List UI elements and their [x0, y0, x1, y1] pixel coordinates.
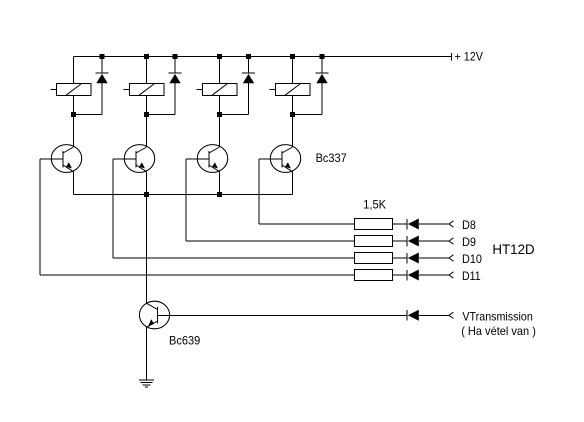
wire emitter bus to Q5 collector	[146, 195, 148, 304]
transistor Q1 Bc337	[51, 145, 81, 173]
wire resistor R3 to diode	[393, 257, 408, 259]
wire junction to diode D1 anode	[74, 83, 103, 115]
wire diode D2 cathode to rail	[174, 57, 176, 74]
wire base line to resistor R2	[186, 240, 355, 242]
label node VTransmission	[462, 309, 532, 323]
label 1,5K	[363, 198, 386, 212]
diode input D11	[407, 270, 419, 281]
transistor Q2 Bc337	[124, 145, 154, 173]
port arrow VTransmission	[449, 312, 453, 318]
junction emitter bus at Q2 / Q5 collector	[144, 192, 149, 197]
wire Q4 base lead	[259, 158, 282, 160]
wire rail to relay K2 coil	[146, 57, 148, 84]
junction relay K2 / diode D2 node	[144, 112, 149, 117]
label node D11	[462, 269, 481, 283]
wire Q3 emitter to bus	[219, 172, 221, 195]
wire relay K2 bottom lead	[146, 96, 148, 115]
svg-text:D10: D10	[462, 252, 482, 266]
diode input D8	[407, 219, 419, 230]
label ( Ha vétel van )	[461, 324, 536, 338]
diode input D9	[407, 236, 419, 247]
svg-text:Bc337: Bc337	[316, 151, 347, 165]
label node D8	[462, 218, 476, 232]
label +12V	[455, 50, 484, 64]
wire Q1 base lead	[40, 158, 63, 160]
label Bc337	[316, 151, 347, 165]
wire diode to port D11	[419, 274, 449, 276]
resistor R1 1,5K	[355, 219, 393, 230]
wire rail to relay K1 coil	[73, 57, 75, 84]
svg-text:Bc639: Bc639	[169, 334, 200, 348]
svg-text:VTransmission: VTransmission	[462, 309, 532, 323]
junction relay K3 / diode D3 node	[217, 112, 222, 117]
wire relay K3 bottom lead	[219, 96, 221, 115]
label Bc639	[169, 334, 200, 348]
wire diode to port D8	[419, 223, 449, 225]
port arrow D8	[449, 221, 453, 227]
wire Q4 emitter to bus	[292, 172, 294, 195]
wire resistor R1 to diode	[393, 223, 408, 225]
wire Q4 base drop	[258, 159, 260, 224]
wire diode to port D9	[419, 240, 449, 242]
junction on +12V rail at D4 column	[320, 54, 325, 59]
wire Q2 emitter to bus	[146, 172, 148, 195]
wire resistor R4 to diode	[393, 274, 408, 276]
relay K1 coil	[51, 84, 92, 96]
transistor Q3 Bc337	[197, 145, 227, 173]
diode input D10	[407, 253, 419, 264]
svg-text:D8: D8	[462, 218, 476, 232]
label HT12D	[492, 241, 534, 257]
junction on +12V rail at K3 column	[217, 54, 222, 59]
wire +12V power rail	[74, 56, 452, 58]
wire base line to resistor R3	[113, 257, 355, 259]
wire junction to diode D4 anode	[293, 83, 323, 115]
resistor R2 1,5K	[355, 236, 393, 247]
node +12V terminal tick	[451, 53, 453, 61]
wire relay K4 bottom lead	[292, 96, 294, 115]
wire Q5 emitter to ground	[146, 328, 148, 381]
wire relay K1 bottom lead	[73, 96, 75, 115]
junction emitter bus at Q3	[217, 192, 222, 197]
wire rail to relay K4 coil	[292, 57, 294, 84]
wire diode to port VTransmission	[419, 314, 449, 316]
wire resistor R2 to diode	[393, 240, 408, 242]
port arrow D11	[449, 272, 453, 278]
wire Q2 base lead	[113, 158, 136, 160]
wire base line to resistor R4	[40, 274, 355, 276]
transistor Q5 Bc639	[139, 301, 169, 329]
wire Q1 base drop	[39, 159, 41, 275]
wire Q3 base drop	[185, 159, 187, 241]
port arrow D10	[449, 255, 453, 261]
wire relay K1 to Q1 collector	[73, 115, 75, 147]
resistor R3 1,5K	[355, 253, 393, 264]
wire Q2 base drop	[112, 159, 114, 258]
svg-text:D11: D11	[462, 269, 481, 283]
ground	[139, 380, 154, 387]
wire relay K2 to Q2 collector	[146, 115, 148, 147]
diode D4 flyback	[316, 73, 329, 83]
transistor Q4 Bc337	[270, 145, 300, 173]
svg-text:1,5K: 1,5K	[363, 198, 386, 212]
junction on +12V rail at D3 column	[246, 54, 251, 59]
wire base line to resistor R1	[259, 223, 355, 225]
wire Q1 emitter to bus	[73, 172, 75, 195]
junction on +12V rail at D2 column	[173, 54, 178, 59]
svg-text:D9: D9	[462, 235, 476, 249]
relay K3 coil	[197, 84, 238, 96]
junction on +12V rail at K2 column	[144, 54, 149, 59]
wire diode D3 cathode to rail	[248, 57, 250, 74]
junction relay K1 / diode D1 node	[71, 112, 76, 117]
wire diode D4 cathode to rail	[321, 57, 323, 74]
wire relay K3 to Q3 collector	[219, 115, 221, 147]
wire relay K4 to Q4 collector	[292, 115, 294, 147]
diode D1 flyback	[96, 73, 109, 83]
diode D2 flyback	[169, 73, 182, 83]
port arrow D9	[449, 238, 453, 244]
junction on +12V rail at D1 column	[100, 54, 105, 59]
wire junction to diode D2 anode	[147, 83, 176, 115]
svg-text:( Ha vétel van ): ( Ha vétel van )	[461, 324, 536, 338]
resistor R4 1,5K	[355, 270, 393, 281]
svg-text:+ 12V: + 12V	[455, 50, 484, 64]
relay K2 coil	[124, 84, 165, 96]
wire rail to relay K3 coil	[219, 57, 221, 84]
wire diode to port D10	[419, 257, 449, 259]
wire emitter bus	[74, 194, 293, 196]
wire diode D1 cathode to rail	[101, 57, 103, 74]
label node D10	[462, 252, 482, 266]
diode D3 flyback	[242, 73, 255, 83]
wire Q3 base lead	[186, 158, 209, 160]
junction on +12V rail at K4 column	[290, 54, 295, 59]
label node D9	[462, 235, 476, 249]
diode input VTransmission	[407, 310, 419, 321]
wire Q5 base to VTransmission diode	[158, 314, 408, 316]
junction relay K4 / diode D4 node	[290, 112, 295, 117]
svg-text:HT12D: HT12D	[492, 241, 534, 257]
wire junction to diode D3 anode	[220, 83, 249, 115]
relay K4 coil	[270, 84, 311, 96]
